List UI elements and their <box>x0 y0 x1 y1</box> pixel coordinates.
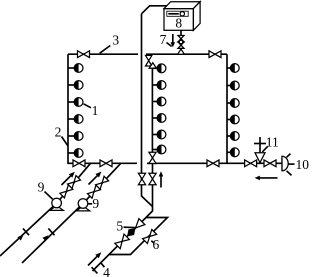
svg-text:9: 9 <box>92 196 99 211</box>
svg-text:3: 3 <box>112 32 119 47</box>
svg-text:9: 9 <box>38 179 45 194</box>
svg-text:2: 2 <box>55 125 62 140</box>
svg-text:5: 5 <box>116 218 123 233</box>
svg-text:11: 11 <box>266 135 279 150</box>
svg-text:4: 4 <box>103 265 110 277</box>
svg-text:7: 7 <box>160 32 167 47</box>
svg-text:8: 8 <box>175 15 182 30</box>
svg-text:1: 1 <box>92 103 99 118</box>
svg-text:10: 10 <box>295 157 309 172</box>
svg-text:6: 6 <box>153 237 160 252</box>
